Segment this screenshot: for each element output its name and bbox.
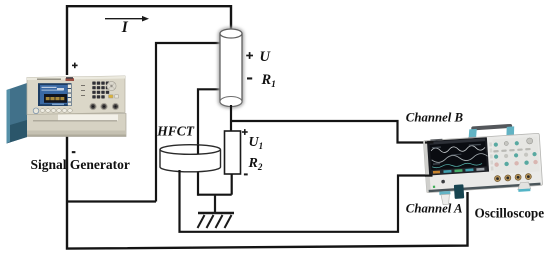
teal side panel (7, 83, 28, 144)
wire from left node up to R1 left side (156, 43, 220, 202)
stand/base (19, 114, 126, 137)
wire branch to node at x156 (67, 200, 156, 202)
wire generator - down, branch to node, bottom run to oscilloscope (67, 136, 468, 249)
knob top-right (107, 81, 116, 90)
label + (R2) (242, 129, 248, 135)
softkey column (68, 85, 71, 106)
amber button and light button (109, 95, 114, 98)
svg-text:U1: U1 (249, 135, 264, 151)
svg-text:U: U (260, 49, 272, 65)
svg-text:R1: R1 (261, 72, 276, 90)
round button left of oval row (33, 108, 39, 114)
logo (66, 78, 75, 81)
HFCT current transformer (cylinder) (160, 145, 221, 172)
wire R2 bottom lead (231, 174, 233, 195)
display bezel (38, 83, 72, 106)
label + (generator) (72, 63, 78, 69)
current arrow (105, 16, 149, 22)
svg-text:Channel A: Channel A (406, 201, 463, 215)
wire R1 bottom to R2 top (230, 105, 232, 131)
svg-text:Channel B: Channel B (406, 110, 464, 124)
ground (198, 195, 235, 228)
oscilloscope (instrument) (423, 122, 544, 206)
svg-text:Oscilloscope: Oscilloscope (475, 205, 545, 220)
label - (R1) (247, 77, 252, 79)
tektronix small text (37, 79, 61, 80)
wire HFCT primary up to R1 left side (198, 89, 220, 153)
wire junction HFCT primary to R2 bottom (198, 194, 232, 196)
button grid (92, 82, 109, 99)
softkey mini column (489, 142, 493, 170)
wire stub Channel B into scope (425, 141, 434, 143)
wire HFCT primary lower segment (197, 170, 199, 196)
small oval buttons row below display (40, 109, 72, 113)
svg-text:R2: R2 (248, 156, 263, 172)
label + (R1) (246, 52, 253, 59)
svg-text:Signal Generator: Signal Generator (31, 157, 130, 172)
resistor R2 (225, 131, 241, 174)
probe comp connector (454, 184, 464, 199)
svg-text:I: I (121, 19, 129, 36)
wire HFCT secondary to oscilloscope Channel A (180, 170, 434, 232)
svg-text:HFCT: HFCT (156, 124, 195, 139)
wire top loop: generator + up, across, down to R1 top (67, 6, 231, 75)
power button (441, 180, 445, 184)
signal generator (instrument) (7, 76, 127, 144)
body (423, 133, 542, 192)
wire Channel B from R1/R2 node to oscilloscope (231, 121, 434, 143)
label - (R2) (244, 173, 248, 175)
BNC row (494, 173, 531, 181)
brand strip (430, 139, 442, 141)
handle (471, 124, 512, 131)
wire stub Channel A into scope (425, 175, 433, 177)
resistor R1 (cylinder) (220, 29, 242, 107)
control panel (492, 136, 539, 174)
BNC connectors (89, 103, 119, 110)
label - (generator) (72, 151, 76, 153)
tiny labels column (81, 85, 85, 96)
feet (439, 191, 450, 195)
front panel (27, 76, 125, 115)
screen (427, 137, 489, 175)
